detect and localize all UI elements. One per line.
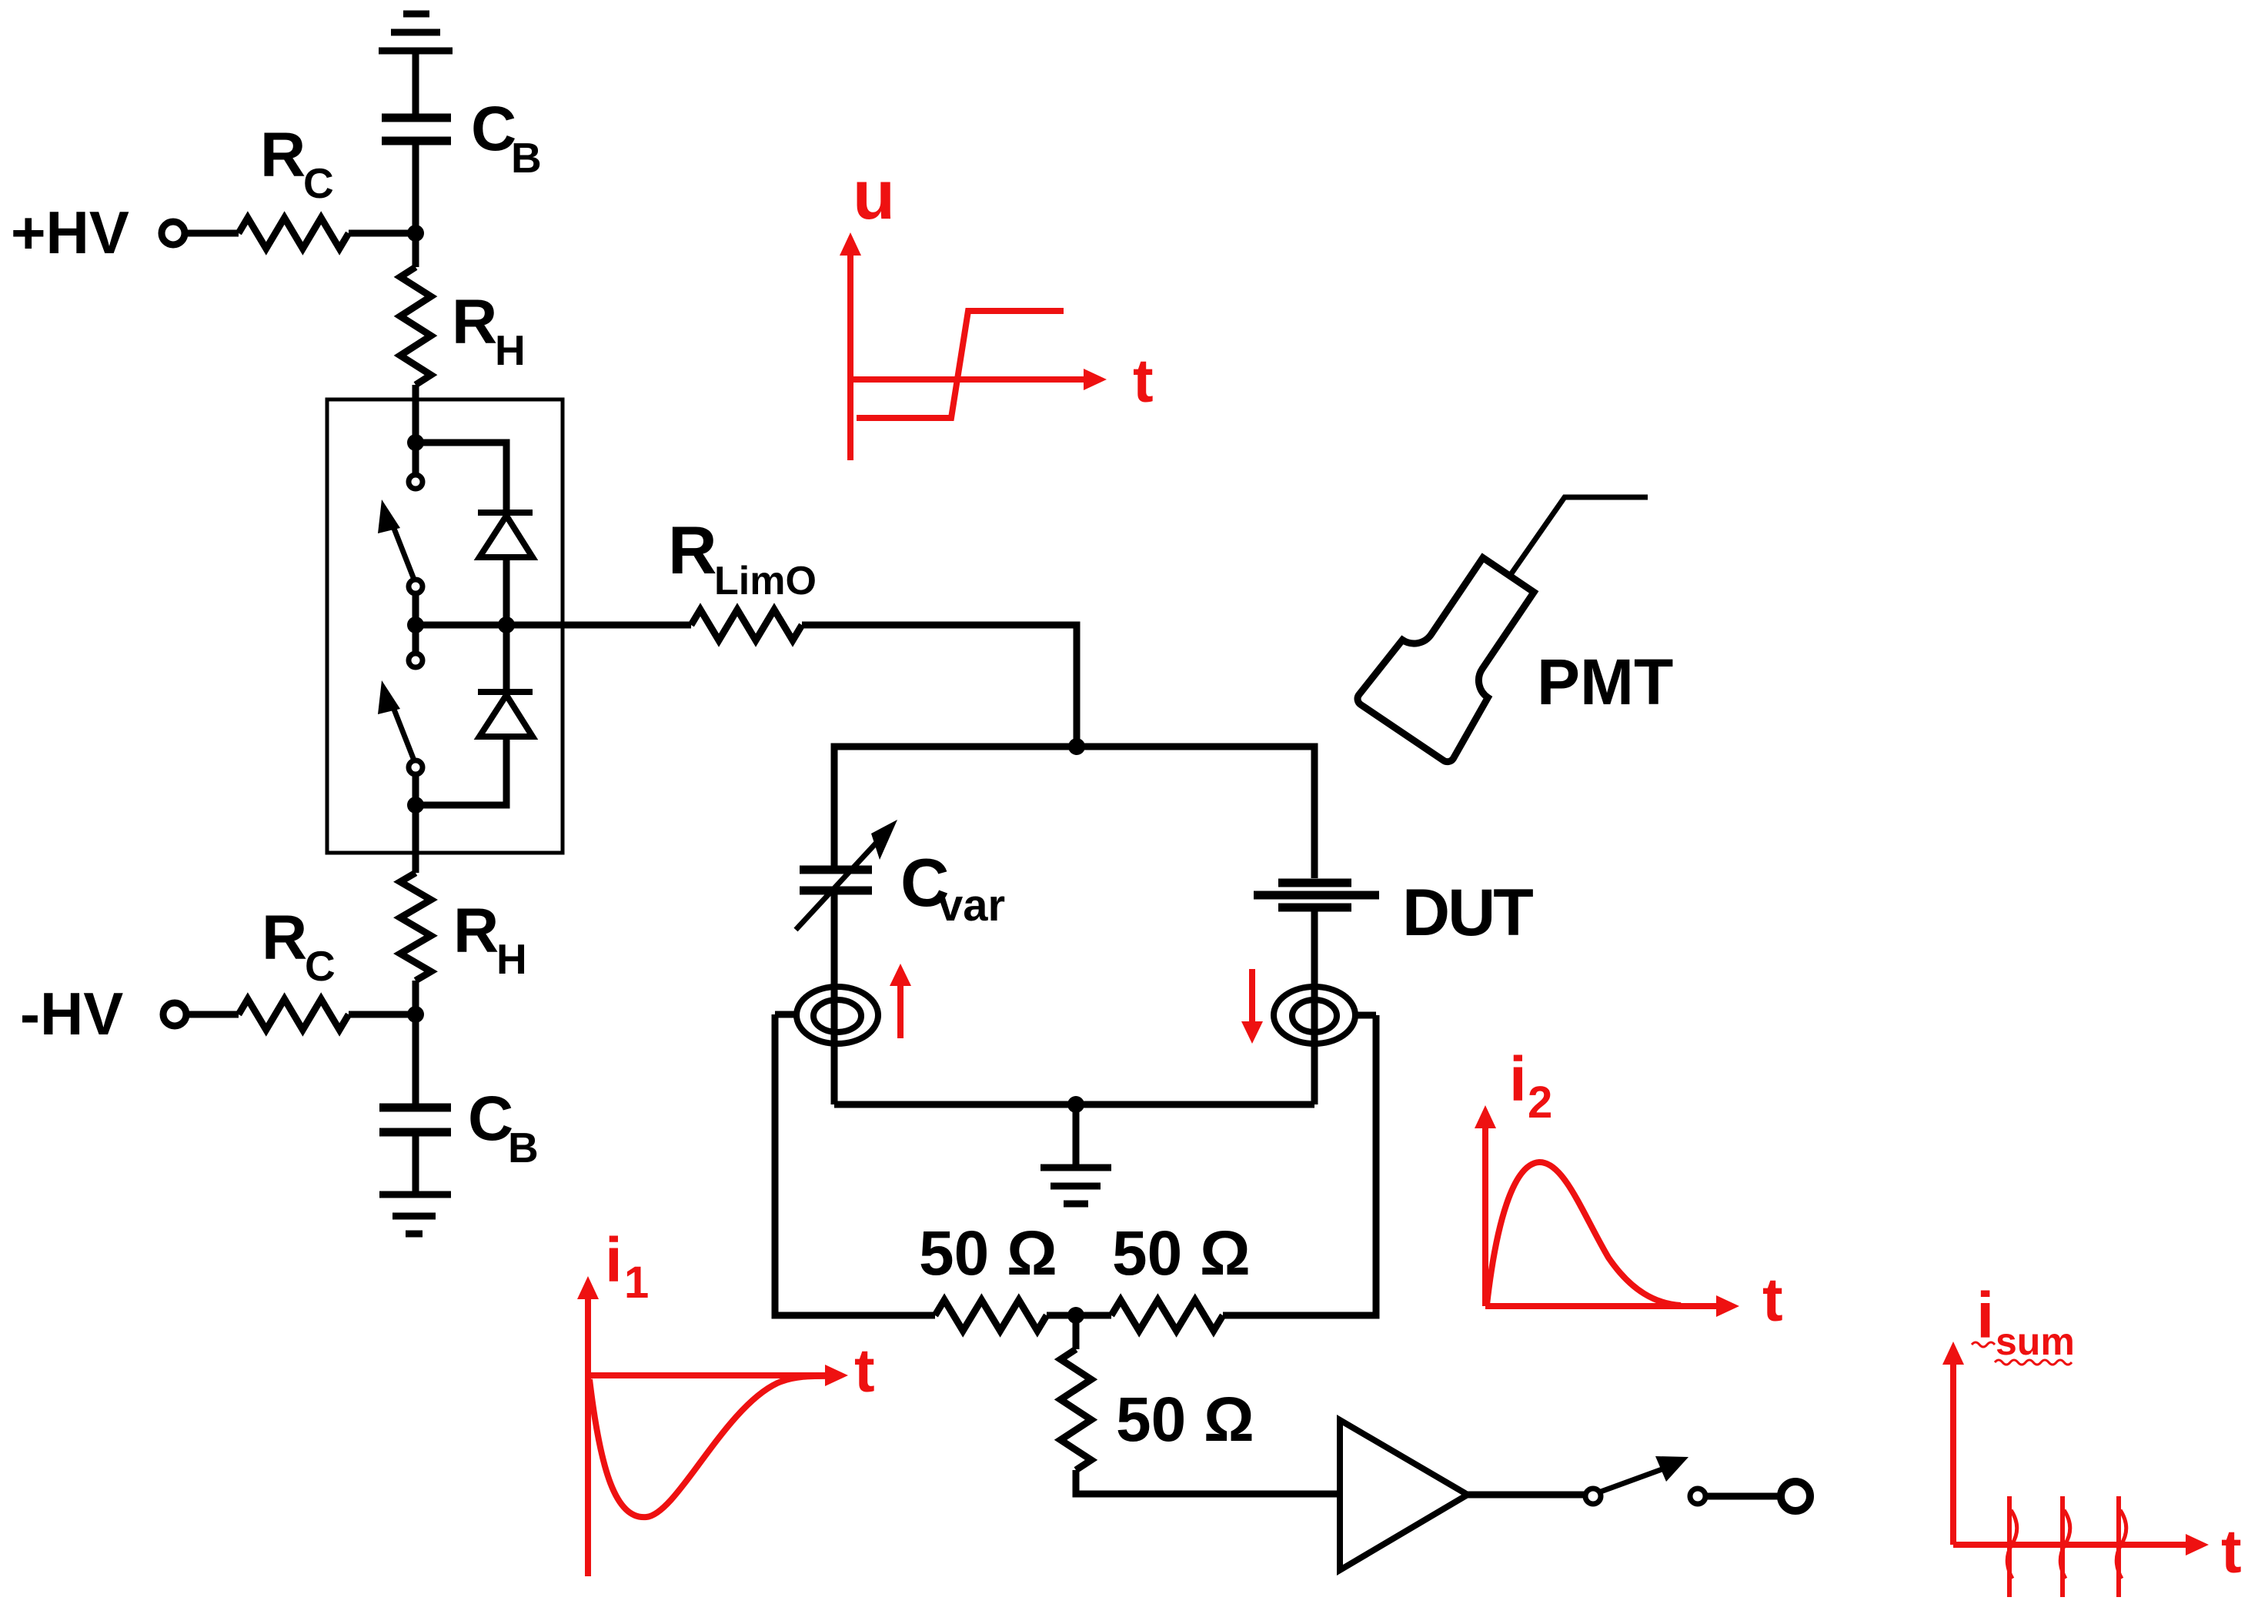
wire box to RH (bottom) [413,805,419,873]
PMT body [1355,543,1556,765]
svg-text:C: C [471,94,516,164]
current transformer CT2 [1274,987,1355,1044]
svg-text:R: R [260,120,306,190]
switch output contact 1 [1585,1489,1601,1504]
graph isum axis vertical [1950,1363,1956,1545]
PMT cable [1511,497,1648,573]
wire +HV to RC [185,230,239,237]
wire RC to node [349,230,416,237]
switch-diode box [327,399,563,853]
svg-text:t: t [1762,1265,1783,1334]
graph u axis horizontal [850,376,1085,383]
diode D2 [478,692,533,737]
wire Cvar to CT1 [831,891,838,1104]
svg-text:C: C [303,159,334,207]
wire RLimO to measuring node [802,625,1077,747]
wire RC to node [349,1011,416,1018]
node 50ohm junction [1067,1307,1084,1324]
svg-text:LimO: LimO [714,559,817,603]
graph i1 axis vertical [585,1298,591,1576]
resistor RH (top) [400,267,431,385]
svg-text:R: R [453,896,499,966]
graph i2 axis horizontal [1485,1303,1718,1309]
wire RH into box [413,385,419,443]
resistor RLimO [691,610,802,640]
svg-text:H: H [496,935,527,983]
switch output arm [1601,1468,1666,1492]
ground (top, above CB) [379,14,453,51]
wire mid node to S2 [413,625,419,654]
red arrow i1 direction (up) [897,981,904,1038]
variable capacitor Cvar [800,870,872,891]
amplifier [1340,1420,1468,1570]
svg-text:C: C [468,1084,513,1154]
wire box to RLimO [506,622,691,629]
node mid rail junction [1067,1096,1084,1113]
svg-text:i: i [605,1225,623,1295]
svg-text:50 Ω: 50 Ω [1116,1385,1254,1455]
current transformer CT1 [797,987,878,1044]
wire D2 to bottom node [416,737,506,805]
svg-text:R: R [452,287,497,357]
svg-text:B: B [508,1124,539,1171]
wire node to RH [413,233,419,267]
wire S1 to mid node [413,593,419,625]
svg-text:u: u [853,157,895,234]
wire top rail [834,747,1314,878]
switch S2 bottom contact [409,760,423,774]
svg-text:t: t [1133,346,1154,415]
diode D1 [478,513,533,557]
switch output contact 2 [1690,1489,1705,1504]
node box top junction [407,434,424,451]
svg-text:50 Ω: 50 Ω [1112,1218,1251,1288]
svg-text:1: 1 [624,1258,649,1308]
ground (bottom left) [379,1195,451,1234]
wire ground to CB [413,51,419,118]
curve i2 [1487,1162,1681,1305]
capacitor CB (top) [382,118,451,141]
wire mid rail [834,1101,1314,1108]
wire D1 to mid node [503,557,510,625]
wire mid node to D2 [503,625,510,692]
graph i2 axis vertical [1482,1127,1488,1306]
graph u axis vertical [847,254,853,460]
capacitor CB (bottom) [379,1108,451,1132]
resistor RC (bottom) [239,999,349,1030]
switch S1 bottom contact [409,580,423,593]
resistor 50ohm left [935,1300,1047,1331]
spike 3 [2116,1496,2121,1597]
switch S1 top contact [409,475,423,489]
wire DUT to CT2 [1311,907,1318,1104]
resistor RH (bottom) [400,873,431,981]
curve i1 [590,1376,839,1517]
curve u step [857,311,1064,418]
wire to center node [1047,1312,1111,1319]
wire -HV to RC [186,1011,239,1018]
wire amp to switch [1468,1492,1585,1499]
svg-text:i: i [1509,1044,1527,1114]
wire CT1 left stub [775,1011,797,1018]
DUT sample [1254,883,1379,907]
svg-text:H: H [495,326,526,374]
wire switch to terminal [1705,1493,1781,1500]
svg-text:C: C [305,942,336,990]
wire RH to -HV node [413,981,419,1014]
svg-text:B: B [511,134,542,182]
node mid (switch side) [407,617,424,633]
svg-text:R: R [668,512,717,588]
svg-text:i: i [1976,1279,1994,1352]
svg-text:var: var [938,881,1005,931]
terminal output [1781,1482,1810,1511]
node -HV junction [407,1006,424,1023]
spike 1 [2007,1496,2012,1597]
svg-text:+HV: +HV [11,199,129,266]
resistor 50ohm right [1111,1300,1223,1331]
svg-text:-HV: -HV [20,980,123,1048]
wire CT2 right stub [1355,1012,1376,1019]
wire node to CB (bottom) [413,1014,419,1108]
node measuring top junction [1068,738,1085,755]
switch S2 top contact [409,653,423,667]
svg-text:t: t [2221,1517,2242,1586]
wire right rail [1223,1015,1376,1315]
switch S2 arm [392,703,416,764]
wire to ground (mid) [1073,1104,1080,1166]
wire left rail [775,1014,935,1315]
node mid (diode side) [498,617,515,633]
svg-text:DUT: DUT [1402,876,1533,950]
wire 50ohm to amplifier [1076,1470,1340,1494]
svg-text:2: 2 [1528,1078,1552,1128]
wire mid node horizontal [416,622,506,629]
spike 2 [2060,1496,2065,1597]
squiggle under i [1972,1342,1995,1347]
resistor 50ohm lower [1061,1349,1091,1470]
graph i1 axis horizontal [588,1372,827,1378]
svg-text:PMT: PMT [1537,646,1673,718]
red arrow i2 direction (down) [1249,969,1255,1027]
resistor RC (top) [239,218,349,249]
wire S2 to bottom node [413,774,419,805]
wire junction to diode branch [416,443,506,513]
terminal -HV [163,1003,186,1026]
svg-text:R: R [262,903,307,973]
switch S1 arm [392,523,416,583]
graph isum axis horizontal [1953,1542,2187,1548]
ground (mid) [1040,1168,1111,1204]
svg-text:t: t [854,1336,875,1405]
svg-text:sum: sum [1996,1320,2075,1363]
wire CB to node [413,141,419,233]
node box bottom junction [407,797,424,814]
wire junction to switch1 [413,443,419,476]
squiggle under sum [1995,1360,2072,1365]
svg-text:50 Ω: 50 Ω [919,1218,1057,1288]
terminal +HV [162,222,185,245]
wire CB to ground [413,1132,419,1195]
node +HV junction [407,225,424,242]
